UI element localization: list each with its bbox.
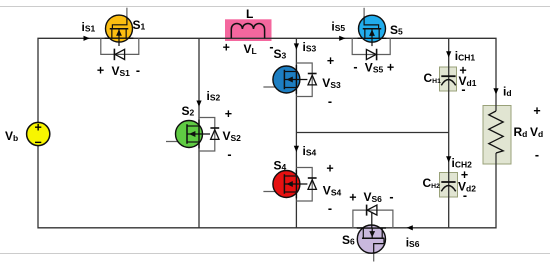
svg-text:-: - <box>227 148 231 162</box>
svg-text:-: - <box>535 148 539 162</box>
svg-text:−: − <box>35 136 42 150</box>
svg-text:-: - <box>461 83 465 97</box>
svg-text:+: + <box>387 61 394 75</box>
svg-text:-: - <box>328 202 332 216</box>
svg-text:+: + <box>326 162 333 176</box>
svg-text:+: + <box>223 41 230 55</box>
svg-text:-: - <box>136 64 140 78</box>
svg-text:+: + <box>225 107 232 121</box>
svg-text:L: L <box>246 7 253 21</box>
svg-text:-: - <box>353 60 357 74</box>
svg-text:+: + <box>35 121 42 135</box>
svg-text:+: + <box>327 54 334 68</box>
svg-text:-: - <box>389 190 393 204</box>
svg-text:+: + <box>349 191 356 205</box>
svg-text:-: - <box>463 189 467 203</box>
svg-text:-: - <box>328 95 332 109</box>
svg-text:+: + <box>97 64 104 78</box>
svg-text:+: + <box>533 104 540 118</box>
